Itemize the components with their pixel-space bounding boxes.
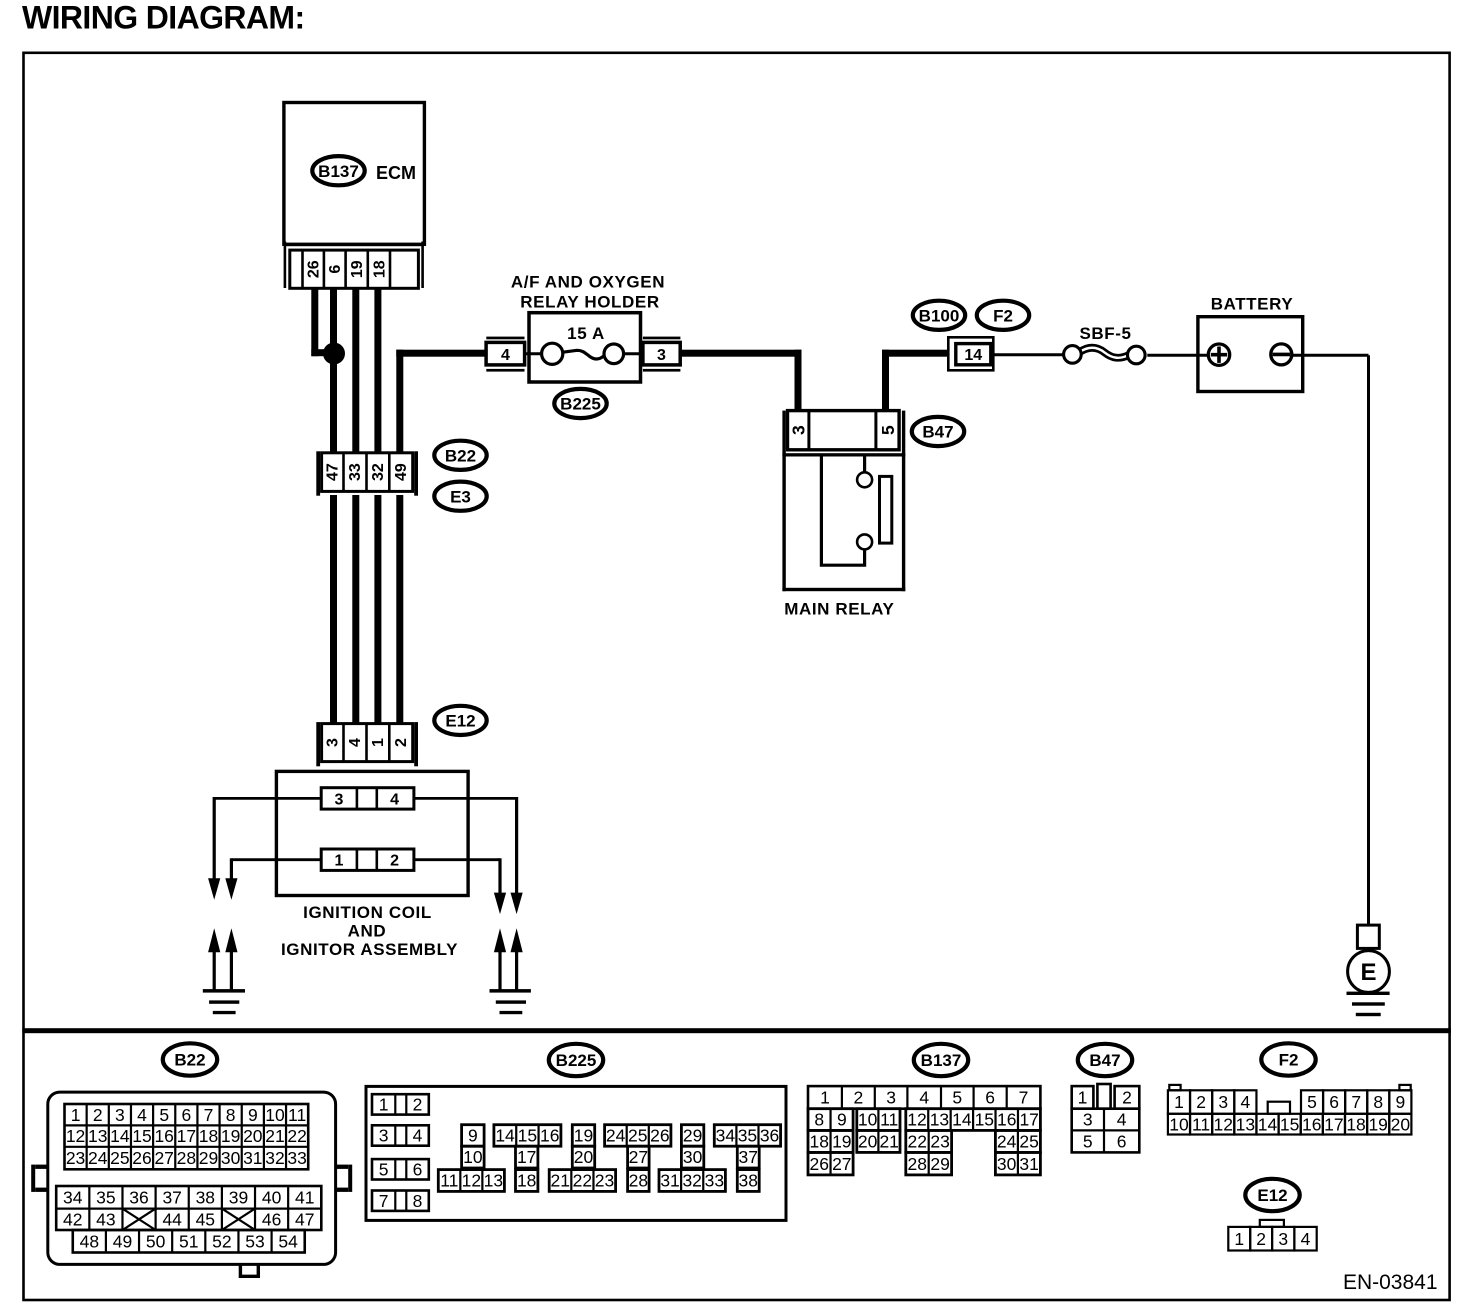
svg-text:19: 19 <box>832 1132 851 1152</box>
svg-text:17: 17 <box>1019 1110 1038 1130</box>
svg-text:2: 2 <box>1256 1229 1266 1249</box>
svg-text:49: 49 <box>393 463 410 481</box>
svg-text:7: 7 <box>204 1105 214 1125</box>
svg-text:33: 33 <box>705 1171 724 1191</box>
svg-text:5: 5 <box>952 1088 962 1108</box>
svg-text:9: 9 <box>837 1110 847 1130</box>
svg-text:3: 3 <box>335 791 344 808</box>
svg-text:19: 19 <box>221 1126 240 1146</box>
svg-text:10: 10 <box>463 1147 483 1167</box>
svg-text:38: 38 <box>739 1171 758 1191</box>
svg-text:4: 4 <box>347 738 364 747</box>
pin number 33 <box>347 463 364 481</box>
wire from ECM pin 18 down (upper segment) <box>374 288 381 453</box>
pin number 47 <box>325 463 342 481</box>
svg-text:36: 36 <box>760 1126 779 1146</box>
svg-text:B100: B100 <box>919 306 960 325</box>
svg-text:35: 35 <box>738 1126 757 1146</box>
wire from relay holder pin 3 to main relay pin 3 <box>680 350 801 411</box>
svg-text:15 A: 15 A <box>567 324 605 343</box>
svg-text:32: 32 <box>682 1171 701 1191</box>
svg-text:31: 31 <box>660 1171 679 1191</box>
svg-text:3: 3 <box>325 738 342 747</box>
svg-text:19: 19 <box>1368 1114 1387 1134</box>
svg-text:17: 17 <box>517 1147 536 1167</box>
connector label E12 oval (diagram) <box>434 706 486 735</box>
svg-text:WIRING DIAGRAM:: WIRING DIAGRAM: <box>22 0 305 36</box>
svg-text:18: 18 <box>199 1126 218 1146</box>
svg-text:16: 16 <box>540 1126 559 1146</box>
svg-text:3: 3 <box>657 347 666 364</box>
title WIRING DIAGRAM <box>22 0 305 36</box>
svg-text:B47: B47 <box>1089 1051 1120 1070</box>
svg-text:20: 20 <box>1391 1114 1411 1134</box>
svg-text:7: 7 <box>379 1191 389 1211</box>
connector label B47 oval (diagram) <box>912 417 964 446</box>
svg-text:28: 28 <box>908 1154 927 1174</box>
svg-text:31: 31 <box>1019 1154 1038 1174</box>
connector B137 pinout grid <box>808 1086 1040 1175</box>
svg-text:11: 11 <box>880 1110 898 1130</box>
svg-text:34: 34 <box>63 1187 83 1207</box>
pin number 3 <box>325 738 342 747</box>
svg-text:2: 2 <box>1196 1092 1206 1112</box>
svg-text:14: 14 <box>110 1126 130 1146</box>
svg-text:6: 6 <box>1329 1092 1339 1112</box>
svg-text:B47: B47 <box>922 423 953 442</box>
svg-text:20: 20 <box>574 1147 594 1167</box>
svg-text:28: 28 <box>177 1148 196 1168</box>
svg-text:B137: B137 <box>921 1051 962 1070</box>
spark plug arrows to ground (right pair) <box>494 928 523 990</box>
wire battery minus to ground E <box>1293 355 1369 925</box>
svg-text:44: 44 <box>162 1209 182 1229</box>
svg-text:26: 26 <box>306 260 323 278</box>
svg-text:5: 5 <box>159 1105 169 1125</box>
svg-text:15: 15 <box>132 1126 151 1146</box>
wire from main relay pin 5 to fuse box pin 14 <box>882 350 948 411</box>
fuse value 15 A <box>567 324 605 343</box>
svg-text:4: 4 <box>1301 1229 1311 1249</box>
svg-text:3: 3 <box>1083 1110 1093 1130</box>
pin number 49 <box>393 463 410 481</box>
svg-text:4: 4 <box>919 1088 929 1108</box>
main relay internal coil wire <box>821 457 872 566</box>
svg-text:30: 30 <box>683 1147 703 1167</box>
svg-text:22: 22 <box>287 1126 306 1146</box>
svg-text:EN-03841: EN-03841 <box>1343 1271 1438 1294</box>
svg-text:6: 6 <box>181 1105 191 1125</box>
ground symbol right spark plugs <box>490 989 531 1014</box>
svg-text:37: 37 <box>739 1147 758 1167</box>
main relay pin 3 label <box>788 425 808 435</box>
svg-text:19: 19 <box>574 1126 593 1146</box>
svg-text:E12: E12 <box>445 712 475 731</box>
battery minus terminal <box>1271 344 1292 365</box>
connector E12 strip (pins 3,4,1,2) <box>316 722 418 766</box>
svg-text:4: 4 <box>501 347 510 364</box>
svg-text:38: 38 <box>196 1187 215 1207</box>
wire coil pin 3 to spark gap <box>208 797 321 900</box>
svg-text:40: 40 <box>262 1187 282 1207</box>
svg-text:43: 43 <box>96 1209 115 1229</box>
svg-text:13: 13 <box>88 1126 107 1146</box>
svg-text:SBF-5: SBF-5 <box>1079 324 1131 343</box>
svg-text:5: 5 <box>1083 1132 1093 1152</box>
svg-text:18: 18 <box>517 1171 536 1191</box>
svg-text:9: 9 <box>468 1126 478 1146</box>
svg-text:29: 29 <box>683 1126 702 1146</box>
svg-text:8: 8 <box>814 1110 824 1130</box>
svg-text:1: 1 <box>1174 1092 1184 1112</box>
svg-text:14: 14 <box>952 1110 972 1130</box>
svg-text:IGNITION COIL: IGNITION COIL <box>303 903 432 922</box>
connector label B100 oval <box>913 301 965 330</box>
fuse F1 symbol in holder <box>523 343 644 364</box>
BATTERY text label <box>1211 295 1294 314</box>
svg-text:50: 50 <box>146 1231 166 1251</box>
ground node E circle <box>1348 951 1390 993</box>
wire fuse to battery <box>1147 354 1207 357</box>
svg-text:49: 49 <box>113 1231 132 1251</box>
svg-text:23: 23 <box>66 1148 85 1168</box>
ground symbol left spark plugs <box>203 989 245 1014</box>
svg-text:13: 13 <box>930 1110 949 1130</box>
main relay internal contact bar <box>880 476 892 543</box>
svg-text:23: 23 <box>595 1171 614 1191</box>
junction dot node <box>323 343 345 365</box>
divider line between diagram and connector views <box>22 1028 1451 1033</box>
svg-text:1: 1 <box>1234 1229 1244 1249</box>
svg-text:15: 15 <box>518 1126 537 1146</box>
svg-text:6: 6 <box>413 1159 423 1179</box>
B22 pin grid 1-33 <box>65 1104 309 1169</box>
connector label E3 oval (diagram) <box>434 482 486 511</box>
svg-text:3: 3 <box>788 425 808 435</box>
svg-text:18: 18 <box>1346 1114 1365 1134</box>
svg-text:14: 14 <box>1258 1114 1278 1134</box>
A/F AND OXYGEN RELAY HOLDER label <box>511 273 665 312</box>
connector E12 pinout grid <box>1228 1220 1316 1251</box>
svg-text:15: 15 <box>975 1110 994 1130</box>
svg-text:6: 6 <box>327 265 344 274</box>
connector B137 pin strip (pins 26,6,19,18) <box>284 242 424 289</box>
svg-text:BATTERY: BATTERY <box>1211 295 1294 314</box>
svg-text:42: 42 <box>63 1209 82 1229</box>
svg-text:39: 39 <box>229 1187 248 1207</box>
main relay body B47 <box>782 411 905 592</box>
svg-text:13: 13 <box>1236 1114 1255 1134</box>
svg-text:1: 1 <box>370 738 387 747</box>
wire pin49 middle segment <box>396 495 403 724</box>
svg-text:32: 32 <box>370 463 387 481</box>
battery plus terminal <box>1208 344 1229 365</box>
connector label B137 oval (diagram) <box>312 156 364 185</box>
svg-text:9: 9 <box>1395 1092 1405 1112</box>
svg-text:4: 4 <box>413 1126 423 1146</box>
svg-text:30: 30 <box>221 1148 241 1168</box>
svg-text:11: 11 <box>440 1171 458 1191</box>
svg-text:5: 5 <box>878 425 898 435</box>
B22 pin grid 34-54 <box>56 1186 321 1253</box>
svg-text:B225: B225 <box>560 395 601 414</box>
pin number 32 <box>370 463 387 481</box>
ground symbol at E <box>1347 992 1390 1017</box>
main relay pin 5 label <box>878 425 898 435</box>
connector label F2 oval (pinout) <box>1261 1043 1315 1075</box>
svg-text:12: 12 <box>66 1126 85 1146</box>
svg-text:ECM: ECM <box>376 163 416 183</box>
svg-text:24: 24 <box>606 1126 626 1146</box>
svg-text:41: 41 <box>295 1187 314 1207</box>
svg-text:46: 46 <box>262 1209 281 1229</box>
svg-text:45: 45 <box>196 1209 215 1229</box>
svg-text:35: 35 <box>96 1187 115 1207</box>
svg-text:54: 54 <box>278 1231 298 1251</box>
svg-text:31: 31 <box>243 1148 262 1168</box>
svg-text:10: 10 <box>265 1105 285 1125</box>
fuse SBF-5 symbol <box>1064 346 1146 364</box>
svg-text:28: 28 <box>629 1171 648 1191</box>
svg-text:7: 7 <box>1019 1088 1029 1108</box>
svg-text:F2: F2 <box>993 306 1013 325</box>
svg-text:25: 25 <box>628 1126 647 1146</box>
pin number 1 <box>370 738 387 747</box>
svg-text:12: 12 <box>1214 1114 1233 1134</box>
pin number 18 <box>371 260 388 278</box>
svg-text:4: 4 <box>1241 1092 1251 1112</box>
connector label B137 oval (pinout) <box>914 1044 968 1076</box>
svg-text:8: 8 <box>1373 1092 1383 1112</box>
svg-text:4: 4 <box>390 791 399 808</box>
svg-text:30: 30 <box>997 1154 1017 1174</box>
svg-text:37: 37 <box>162 1187 181 1207</box>
pin number 2 <box>393 738 410 747</box>
svg-text:10: 10 <box>1169 1114 1189 1134</box>
svg-text:2: 2 <box>93 1105 103 1125</box>
svg-text:1: 1 <box>71 1105 81 1125</box>
svg-text:11: 11 <box>1192 1114 1210 1134</box>
connector label B225 oval (diagram) <box>554 389 606 418</box>
wire pin47 middle segment <box>330 495 337 724</box>
pin number 26 <box>306 260 323 278</box>
svg-text:51: 51 <box>179 1231 198 1251</box>
svg-text:32: 32 <box>265 1148 284 1168</box>
IGNITION COIL AND IGNITOR ASSEMBLY label <box>281 903 458 959</box>
connector B22 pinout body <box>31 1092 352 1276</box>
svg-text:27: 27 <box>154 1148 173 1168</box>
svg-text:21: 21 <box>265 1126 284 1146</box>
svg-text:47: 47 <box>325 463 342 481</box>
ignition coil box <box>276 771 468 895</box>
svg-text:29: 29 <box>930 1154 949 1174</box>
svg-text:10: 10 <box>858 1110 878 1130</box>
ECM box U1 <box>284 103 425 245</box>
svg-text:25: 25 <box>1019 1132 1038 1152</box>
svg-text:36: 36 <box>129 1187 148 1207</box>
svg-text:14: 14 <box>964 347 982 364</box>
svg-text:17: 17 <box>177 1126 196 1146</box>
B225 pin pairs 1-8 <box>372 1094 429 1211</box>
pin number 19 <box>349 260 366 278</box>
svg-text:11: 11 <box>288 1105 306 1125</box>
battery box BAT <box>1198 317 1303 392</box>
svg-text:12: 12 <box>907 1110 926 1130</box>
svg-text:24: 24 <box>997 1132 1017 1152</box>
ground node E square <box>1357 925 1379 948</box>
svg-text:22: 22 <box>573 1171 592 1191</box>
svg-text:24: 24 <box>88 1148 108 1168</box>
connector B22/E3 strip (pins 47,33,32,49) <box>316 451 418 495</box>
svg-text:E12: E12 <box>1257 1186 1287 1205</box>
wire coil pin 2 to spark gap <box>414 858 506 914</box>
connector F2 pinout grid <box>1168 1085 1411 1135</box>
wire from ECM pin 19 down (upper segment) <box>352 288 359 453</box>
svg-text:2: 2 <box>390 853 399 870</box>
connector label B47 oval (pinout) <box>1078 1044 1132 1076</box>
svg-text:33: 33 <box>347 463 364 481</box>
EN-03841 reference text <box>1343 1271 1438 1294</box>
wire pin14 to fuse SBF-5 <box>993 353 1063 356</box>
svg-text:52: 52 <box>212 1231 231 1251</box>
svg-text:9: 9 <box>248 1105 258 1125</box>
svg-text:B22: B22 <box>174 1051 205 1070</box>
svg-text:21: 21 <box>551 1171 570 1191</box>
svg-text:29: 29 <box>199 1148 218 1168</box>
svg-text:23: 23 <box>930 1132 949 1152</box>
svg-text:2: 2 <box>853 1088 863 1108</box>
svg-text:18: 18 <box>810 1132 829 1152</box>
svg-text:15: 15 <box>1280 1114 1299 1134</box>
wire from ECM pin 6 down (upper segment) <box>330 288 337 453</box>
svg-text:16: 16 <box>154 1126 173 1146</box>
svg-text:1: 1 <box>335 853 344 870</box>
wire pin32 middle segment <box>374 495 381 724</box>
connector B47 pinout grid <box>1072 1084 1140 1152</box>
svg-text:16: 16 <box>997 1110 1016 1130</box>
svg-text:53: 53 <box>245 1231 264 1251</box>
svg-text:3: 3 <box>1278 1229 1288 1249</box>
svg-text:34: 34 <box>716 1126 736 1146</box>
svg-text:IGNITOR ASSEMBLY: IGNITOR ASSEMBLY <box>281 940 458 959</box>
svg-text:A/F AND OXYGEN: A/F AND OXYGEN <box>511 273 665 292</box>
wire coil pin 4 to spark gap <box>414 797 523 914</box>
svg-text:20: 20 <box>858 1132 878 1152</box>
connector label B225 oval (pinout) <box>549 1044 603 1076</box>
relay holder box B225 <box>529 313 641 382</box>
B225 pin groups 9-38 <box>438 1125 780 1192</box>
pin 4 box of relay holder <box>486 337 524 372</box>
svg-text:AND: AND <box>348 922 387 941</box>
svg-text:2: 2 <box>413 1095 423 1115</box>
connector label E12 oval (pinout) <box>1245 1179 1299 1211</box>
svg-text:8: 8 <box>226 1105 236 1125</box>
svg-text:B225: B225 <box>556 1051 597 1070</box>
svg-text:4: 4 <box>1117 1110 1127 1130</box>
svg-text:3: 3 <box>115 1105 125 1125</box>
svg-text:2: 2 <box>1122 1088 1132 1108</box>
svg-text:5: 5 <box>1307 1092 1317 1112</box>
svg-text:6: 6 <box>985 1088 995 1108</box>
svg-text:18: 18 <box>371 260 388 278</box>
wire from ECM pin 26 down to junction <box>311 288 334 356</box>
svg-text:1: 1 <box>820 1088 830 1108</box>
wire from relay holder pin 4 left and down (upper segment) <box>396 350 486 453</box>
svg-text:27: 27 <box>832 1154 851 1174</box>
svg-text:F2: F2 <box>1279 1051 1299 1070</box>
pin 14 box (fuse box connector) <box>948 337 993 370</box>
svg-text:12: 12 <box>462 1171 481 1191</box>
svg-text:26: 26 <box>810 1154 829 1174</box>
connector label B22 oval (diagram) <box>434 441 486 470</box>
svg-text:4: 4 <box>137 1105 147 1125</box>
svg-text:1: 1 <box>1078 1088 1088 1108</box>
svg-text:21: 21 <box>879 1132 898 1152</box>
svg-text:RELAY HOLDER: RELAY HOLDER <box>520 293 659 312</box>
svg-text:26: 26 <box>650 1126 669 1146</box>
svg-text:E3: E3 <box>450 487 471 506</box>
svg-text:20: 20 <box>243 1126 263 1146</box>
pin 3 box of relay holder <box>643 337 681 372</box>
svg-text:3: 3 <box>1218 1092 1228 1112</box>
svg-text:27: 27 <box>629 1147 648 1167</box>
connector label F2 oval (diagram) <box>977 301 1029 330</box>
svg-text:13: 13 <box>484 1171 503 1191</box>
svg-text:14: 14 <box>495 1126 515 1146</box>
svg-text:2: 2 <box>393 738 410 747</box>
svg-text:48: 48 <box>80 1231 99 1251</box>
svg-text:17: 17 <box>1324 1114 1343 1134</box>
svg-text:47: 47 <box>295 1209 314 1229</box>
spark plug arrows to ground (left pair) <box>208 928 237 990</box>
svg-text:MAIN RELAY: MAIN RELAY <box>784 600 894 619</box>
ignition coil pins 3 and 4 <box>321 788 414 809</box>
svg-text:3: 3 <box>886 1088 896 1108</box>
svg-text:19: 19 <box>349 260 366 278</box>
svg-text:33: 33 <box>287 1148 306 1168</box>
svg-text:26: 26 <box>132 1148 151 1168</box>
connector B225 pinout body <box>366 1086 786 1220</box>
svg-text:B137: B137 <box>318 162 359 181</box>
svg-text:7: 7 <box>1351 1092 1361 1112</box>
svg-text:E: E <box>1360 959 1376 986</box>
ignition coil pins 1 and 2 <box>321 849 414 870</box>
svg-text:22: 22 <box>908 1132 927 1152</box>
svg-text:6: 6 <box>1117 1132 1127 1152</box>
svg-text:16: 16 <box>1302 1114 1321 1134</box>
pin number 4 <box>347 738 364 747</box>
fuse SBF-5 label <box>1079 324 1131 343</box>
svg-text:3: 3 <box>379 1126 389 1146</box>
svg-text:8: 8 <box>413 1191 423 1211</box>
pin number 6 <box>327 265 344 274</box>
svg-text:B22: B22 <box>445 446 476 465</box>
ECM text label <box>376 163 416 183</box>
wire pin33 middle segment <box>352 495 359 724</box>
MAIN RELAY text label <box>784 600 894 619</box>
svg-text:5: 5 <box>379 1159 389 1179</box>
connector label B22 oval (pinout) <box>163 1043 217 1075</box>
wire coil pin 1 to spark gap <box>225 858 321 900</box>
svg-text:25: 25 <box>110 1148 129 1168</box>
svg-text:1: 1 <box>379 1095 389 1115</box>
